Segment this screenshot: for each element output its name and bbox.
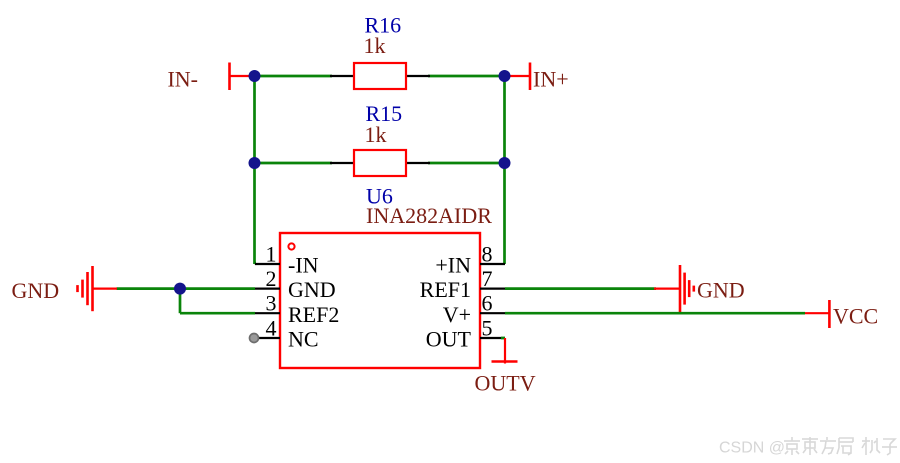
- power ground symbol right GND: [654, 265, 745, 312]
- watermark chinese glyph 京: [784, 437, 800, 455]
- wire row2 right: R15 right terminal to node: [428, 162, 505, 165]
- svg-text:GND: GND: [697, 278, 745, 303]
- svg-text:GND: GND: [288, 277, 336, 302]
- watermark chinese glyph 局: [837, 438, 853, 455]
- svg-text:1k: 1k: [364, 33, 386, 58]
- svg-text:OUTV: OUTV: [475, 371, 536, 396]
- wire pin 7 to GND symbol: [505, 287, 656, 290]
- pin 7 REF1: [420, 266, 505, 302]
- svg-text:NC: NC: [288, 327, 319, 352]
- svg-text:+IN: +IN: [435, 253, 471, 278]
- wire GND left to pin 2: [117, 287, 256, 290]
- pin 2 GND: [255, 266, 336, 302]
- watermark chinese glyph 桃: [862, 437, 880, 455]
- pin 3 REF2: [255, 291, 339, 327]
- wire row2 left: node to R15 left terminal: [255, 162, 333, 165]
- pin 5 OUT: [426, 315, 505, 351]
- svg-text:1k: 1k: [365, 122, 387, 147]
- svg-text:IN-: IN-: [167, 67, 198, 92]
- resistor R16: [330, 13, 430, 90]
- svg-text:3: 3: [266, 291, 277, 316]
- wire row1 left: IN- node to R16 left terminal: [255, 75, 333, 78]
- junction node IN- row1: [249, 70, 261, 82]
- wire pin 5 stub tip: [501, 337, 505, 340]
- wire pin1 connect: [255, 262, 257, 265]
- svg-text:2: 2: [266, 266, 277, 291]
- port OUTV: [475, 338, 536, 396]
- svg-text:VCC: VCC: [833, 304, 878, 329]
- pin 1 indicator dot: [288, 243, 294, 249]
- port IN+: [505, 63, 569, 92]
- pin 4 NC: [258, 315, 319, 351]
- pin 8 +IN: [435, 241, 505, 277]
- svg-text:7: 7: [482, 266, 493, 291]
- svg-text:CSDN @: CSDN @: [719, 440, 785, 457]
- junction node GND branch: [174, 283, 186, 295]
- op-amp U6 INA282AIDR body: [280, 184, 492, 369]
- wire row1 right: R16 right terminal to IN+ node: [428, 75, 505, 78]
- junction node right row2: [499, 157, 511, 169]
- svg-text:5: 5: [482, 315, 493, 340]
- watermark chinese glyph 子: [882, 439, 897, 455]
- watermark CSDN: [719, 440, 785, 457]
- svg-text:REF2: REF2: [288, 302, 339, 327]
- svg-text:REF1: REF1: [420, 277, 471, 302]
- svg-text:4: 4: [266, 315, 277, 340]
- svg-text:GND: GND: [12, 278, 60, 303]
- pin 1 -IN: [255, 241, 319, 277]
- wire left vertical: IN- node down to pin 1: [253, 76, 256, 264]
- svg-text:IN+: IN+: [533, 67, 569, 92]
- svg-text:8: 8: [482, 241, 493, 266]
- port IN-: [167, 63, 254, 92]
- svg-text:1: 1: [266, 241, 277, 266]
- resistor R15: [330, 101, 430, 176]
- svg-text:6: 6: [482, 291, 493, 316]
- wire GND branch down to pin 3: [180, 289, 255, 314]
- watermark chinese glyph 東: [802, 437, 818, 455]
- port VCC: [805, 300, 878, 329]
- junction node left row2: [249, 157, 261, 169]
- pin 6 V+: [443, 291, 505, 327]
- power ground symbol left GND: [12, 266, 118, 311]
- svg-text:-IN: -IN: [288, 253, 319, 278]
- svg-text:OUT: OUT: [426, 327, 472, 352]
- junction node IN+ row1: [499, 70, 511, 82]
- NC no-connect dot: [250, 334, 259, 343]
- wire right vertical: IN+ node down to pin 8: [503, 76, 506, 264]
- svg-text:V+: V+: [443, 302, 471, 327]
- wire pin 6 to VCC: [505, 312, 805, 315]
- watermark chinese glyph 方: [820, 437, 836, 454]
- svg-text:INA282AIDR: INA282AIDR: [366, 203, 492, 228]
